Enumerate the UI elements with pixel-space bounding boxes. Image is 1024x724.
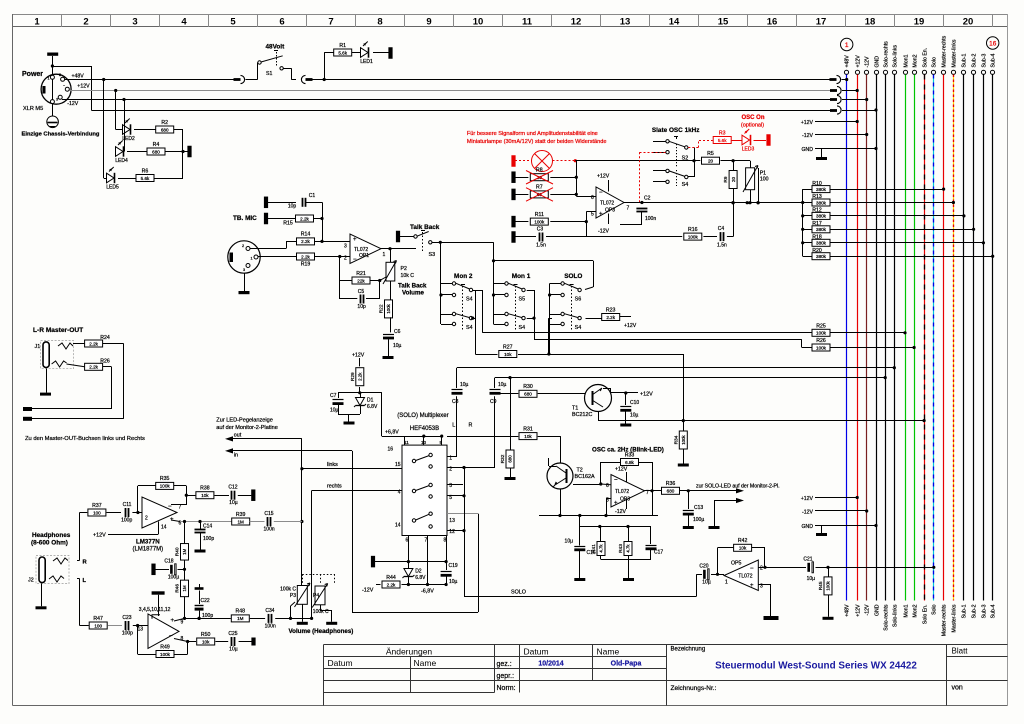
- svg-text:C19: C19: [449, 563, 458, 569]
- wire R49 feedback: [137, 626, 139, 655]
- svg-text:R1: R1: [339, 43, 346, 49]
- resistor R18: [812, 239, 830, 246]
- wire R31 to T2: [538, 436, 561, 438]
- svg-text:100k: 100k: [534, 219, 545, 224]
- ground C14: [195, 550, 206, 553]
- wire +6.8V rail: [382, 436, 442, 438]
- svg-text:R25: R25: [816, 323, 826, 329]
- svg-text:+: +: [353, 237, 357, 243]
- svg-text:4: 4: [181, 17, 187, 28]
- svg-text:R16: R16: [688, 227, 698, 233]
- wire C22: [199, 591, 201, 605]
- svg-text:+: +: [171, 618, 175, 624]
- wire S2 to R3 red dashed: [688, 147, 699, 149]
- svg-text:R47: R47: [93, 616, 103, 622]
- svg-text:10µ: 10µ: [393, 343, 402, 349]
- net GND rail: [91, 110, 833, 112]
- svg-text:Miniaturlampe (30mA/12V) statt: Miniaturlampe (30mA/12V) statt der beide…: [467, 139, 607, 145]
- wire P4 ground: [320, 605, 322, 610]
- capacitor C22: [195, 587, 204, 590]
- svg-text:+6,8V: +6,8V: [385, 430, 399, 436]
- svg-text:R37: R37: [92, 503, 102, 509]
- svg-text:10k C: 10k C: [401, 273, 415, 279]
- connector J-power XLR M5: [41, 74, 71, 104]
- terminal LED1 end: [388, 47, 392, 59]
- svg-text:+12V: +12V: [93, 533, 106, 539]
- svg-text:Sub-4: Sub-4: [991, 604, 997, 618]
- svg-text:Sub-3: Sub-3: [982, 604, 988, 618]
- resistor R40: [181, 544, 189, 561]
- resistor R31: [519, 433, 537, 440]
- svg-text:C7: C7: [330, 393, 337, 399]
- wire R33 to out: [638, 462, 652, 464]
- svg-text:380k: 380k: [816, 254, 827, 259]
- svg-text:Sub-3: Sub-3: [982, 54, 988, 68]
- wire in loop: [352, 451, 354, 612]
- wire mux pin3: [447, 484, 463, 486]
- svg-text:2: 2: [242, 244, 244, 248]
- wire C4 up to OSC line: [727, 236, 733, 238]
- svg-text:Master-links: Master-links: [952, 39, 958, 67]
- svg-text:100p: 100p: [203, 536, 214, 542]
- ground C13: [683, 526, 694, 529]
- dotted gang link: [302, 574, 304, 583]
- svg-text:−: −: [599, 190, 603, 196]
- svg-text:7: 7: [627, 206, 630, 212]
- wire amp2 gnd: [158, 595, 160, 616]
- svg-text:6.8V: 6.8V: [415, 575, 426, 581]
- red cross R8: [526, 171, 553, 185]
- wire lamp node down to OP2 -in: [576, 161, 578, 196]
- svg-text:D1: D1: [367, 398, 374, 404]
- wire OP2 +12V: [608, 180, 610, 192]
- svg-text:R23: R23: [606, 307, 616, 313]
- svg-text:LED1: LED1: [360, 59, 373, 65]
- svg-text:+48V: +48V: [845, 55, 851, 68]
- net Sub-4 bus line: [990, 70, 994, 74]
- wire LED4 to R4: [127, 151, 147, 153]
- svg-text:C4: C4: [718, 226, 725, 232]
- svg-text:R10: R10: [812, 181, 822, 187]
- svg-text:R17: R17: [812, 221, 822, 227]
- svg-text:2.2k: 2.2k: [300, 216, 309, 221]
- svg-text:−: −: [169, 634, 173, 640]
- svg-text:+: +: [599, 212, 603, 218]
- wire R14 to OP1 +in: [315, 241, 351, 243]
- capacitor C9: [490, 389, 501, 391]
- svg-text:380k: 380k: [816, 227, 827, 232]
- svg-text:2.2k: 2.2k: [358, 372, 363, 381]
- resistor R41: [597, 542, 605, 556]
- svg-text:100: 100: [94, 623, 102, 628]
- svg-text:J1: J1: [35, 344, 41, 350]
- wire R13 row: [803, 202, 813, 204]
- svg-text:+12V: +12V: [624, 323, 637, 329]
- terminal master out L: [23, 417, 32, 421]
- wire OP2 out: [624, 202, 803, 204]
- svg-text:R32: R32: [500, 454, 506, 463]
- svg-text:1M: 1M: [238, 519, 245, 524]
- svg-text:C34: C34: [265, 608, 274, 614]
- svg-text:Zur LED-Pegelanzeige: Zur LED-Pegelanzeige: [216, 418, 273, 424]
- svg-text:3,4,5,10,11,12: 3,4,5,10,11,12: [139, 607, 171, 613]
- svg-text:L: L: [452, 423, 455, 429]
- wire +12V to LED2: [114, 89, 117, 92]
- wire R27 line: [475, 354, 497, 356]
- svg-text:1: 1: [34, 17, 40, 28]
- ground TB XLR: [244, 273, 246, 291]
- resistor R32: [506, 450, 514, 468]
- wire SOLO to C20: [696, 574, 698, 596]
- net +48V rail: [65, 79, 234, 81]
- svg-text:R36: R36: [666, 481, 676, 487]
- svg-text:10/2014: 10/2014: [538, 661, 563, 668]
- wire to SOLO top: [494, 260, 594, 262]
- svg-text:R6: R6: [142, 168, 149, 174]
- wire R40 top: [184, 522, 186, 544]
- svg-text:16: 16: [989, 41, 997, 48]
- svg-text:HEF4053B: HEF4053B: [410, 426, 439, 432]
- svg-text:C25: C25: [228, 631, 237, 637]
- capacitor C8: [452, 389, 463, 391]
- wire OP3 out: [645, 490, 662, 492]
- svg-text:C14: C14: [203, 524, 212, 530]
- arrow 2: [736, 498, 744, 503]
- wire pin3 ground: [758, 584, 771, 586]
- wire R50 to C25: [215, 641, 228, 643]
- svg-text:SOLO: SOLO: [564, 273, 582, 280]
- svg-text:R49: R49: [160, 644, 170, 650]
- svg-text:2: 2: [145, 516, 148, 522]
- wire Mon1 feed: [493, 242, 495, 260]
- svg-text:T2: T2: [577, 468, 583, 474]
- svg-text:C20: C20: [699, 564, 708, 570]
- op-amp U2 LM377 upper: [142, 497, 177, 528]
- arrow out: [225, 436, 233, 441]
- zener D2: [404, 569, 413, 577]
- svg-text:Datum: Datum: [328, 658, 353, 668]
- LED LED5: [107, 173, 115, 183]
- wire mux pin5: [447, 495, 464, 497]
- net +48V bus line: [844, 70, 848, 74]
- wire P1 bottom: [750, 190, 752, 203]
- svg-text:5: 5: [591, 212, 594, 218]
- wire R9 bottom: [733, 188, 735, 203]
- wire R input: [80, 512, 88, 514]
- svg-text:8: 8: [377, 17, 382, 28]
- resistor R48: [231, 615, 249, 622]
- wire R22 to C6: [390, 317, 392, 332]
- svg-text:22k: 22k: [357, 278, 365, 283]
- svg-text:Mon 2: Mon 2: [454, 273, 473, 280]
- ground J1: [46, 369, 48, 393]
- svg-text:+: +: [614, 501, 618, 507]
- resistor R13: [812, 199, 830, 206]
- svg-text:+48V: +48V: [72, 74, 85, 80]
- capacitor C16: [574, 546, 585, 548]
- ground J2 bar: [36, 606, 47, 609]
- resistor R10: [812, 186, 830, 193]
- svg-text:100n: 100n: [264, 527, 275, 533]
- lamp LP1: [532, 151, 553, 172]
- svg-text:2.2k: 2.2k: [606, 315, 615, 320]
- ground R32: [505, 477, 516, 480]
- svg-text:Zeichnungs-Nr.:: Zeichnungs-Nr.:: [671, 685, 717, 692]
- ground GND stub bottom: [816, 533, 827, 536]
- capacitor C5: [360, 295, 362, 304]
- svg-text:R4: R4: [153, 142, 160, 148]
- svg-text:10µ: 10µ: [498, 382, 507, 388]
- svg-text:C6: C6: [394, 329, 401, 335]
- red cross R7: [526, 188, 553, 202]
- svg-text:Power: Power: [22, 71, 43, 78]
- arrow to SOLO LED: [736, 488, 744, 493]
- wire R36 to arrow: [680, 490, 738, 492]
- svg-text:680: 680: [161, 127, 169, 132]
- svg-text:10: 10: [473, 17, 484, 28]
- wire C18 to node: [178, 569, 185, 571]
- wire SOLO row3 to R23: [586, 318, 603, 320]
- svg-text:13: 13: [137, 627, 143, 633]
- svg-text:R20: R20: [812, 248, 822, 254]
- potentiometer P2: [386, 262, 395, 281]
- wire R20 row: [803, 256, 813, 258]
- capacitor C2: [636, 208, 647, 210]
- wire LED1 to terminal: [373, 52, 389, 54]
- svg-text:C9: C9: [490, 399, 497, 405]
- wire pin2 line: [758, 567, 806, 569]
- svg-text:Norm:: Norm:: [497, 685, 516, 692]
- wire R7 to node: [550, 194, 576, 196]
- svg-text:2: 2: [760, 566, 763, 572]
- svg-text:6: 6: [279, 17, 284, 28]
- svg-text:R21: R21: [356, 271, 366, 277]
- wire C15 right: [274, 521, 302, 523]
- svg-text:Sub-4: Sub-4: [991, 54, 997, 68]
- svg-text:C15: C15: [264, 511, 273, 517]
- svg-text:-12V: -12V: [802, 510, 813, 516]
- wire OP2 -12V: [608, 214, 610, 225]
- svg-text:LED4: LED4: [115, 158, 128, 164]
- svg-text:C11: C11: [123, 502, 132, 508]
- svg-text:−: −: [353, 257, 357, 263]
- svg-text:C3: C3: [537, 227, 544, 233]
- resistor R36: [662, 487, 680, 494]
- svg-text:rechts: rechts: [327, 484, 342, 490]
- wire R45 top: [828, 567, 830, 577]
- wire S3 to banks: [432, 242, 440, 244]
- svg-text:10µ: 10µ: [229, 500, 238, 506]
- resistor R14: [297, 238, 315, 245]
- svg-text:100k: 100k: [386, 303, 391, 313]
- wire OP1 output: [381, 248, 416, 250]
- wire R27 to R34 column: [683, 354, 685, 432]
- net Master-links bus line: [951, 70, 955, 74]
- svg-text:Einzige Chassis-Verbindung: Einzige Chassis-Verbindung: [22, 132, 100, 138]
- svg-text:+12V: +12V: [801, 496, 814, 502]
- svg-text:C8: C8: [452, 399, 459, 405]
- ground OP5: [764, 616, 779, 620]
- svg-text:10k: 10k: [201, 493, 209, 498]
- terminal LED3: [766, 134, 770, 146]
- capacitor C3: [539, 233, 541, 242]
- wire mux pin7: [427, 536, 429, 585]
- svg-text:S4: S4: [466, 325, 473, 331]
- svg-text:Bezeichnung: Bezeichnung: [671, 647, 706, 653]
- svg-text:C5: C5: [358, 289, 365, 295]
- svg-text:14: 14: [161, 525, 167, 531]
- ground GND stub top: [816, 157, 827, 160]
- svg-text:Solo-rechts: Solo-rechts: [884, 41, 890, 68]
- net Solo En. bus line: [922, 70, 926, 74]
- svg-text:OP3: OP3: [605, 208, 615, 214]
- terminal lamp: [511, 155, 515, 167]
- wire +48V to R1: [323, 78, 326, 81]
- svg-text:13: 13: [620, 17, 631, 28]
- svg-text:100k: 100k: [816, 331, 827, 336]
- wire R47 to C23: [108, 625, 122, 627]
- svg-text:(LM1877M): (LM1877M): [133, 547, 164, 553]
- svg-text:100p: 100p: [121, 518, 132, 524]
- svg-text:LM377N: LM377N: [136, 539, 160, 546]
- net Solo-rechts bus line: [883, 70, 887, 74]
- svg-text:Master-rechts: Master-rechts: [942, 604, 948, 636]
- svg-text:1M: 1M: [237, 616, 244, 621]
- wire pin1 to R19: [258, 256, 297, 258]
- wire C11 to amp: [132, 512, 142, 514]
- svg-text:OP1: OP1: [359, 253, 369, 259]
- wire C25 to term: [239, 641, 252, 643]
- svg-text:in: in: [234, 452, 238, 458]
- svg-text:−: −: [750, 566, 754, 572]
- op-amp OP3: [611, 475, 645, 508]
- svg-text:(SOLO) Multiplexer: (SOLO) Multiplexer: [397, 413, 448, 419]
- svg-text:Mon1: Mon1: [904, 54, 910, 67]
- svg-text:gepr.:: gepr.:: [497, 673, 515, 680]
- wire R1 to LED1: [352, 52, 362, 54]
- svg-text:R45: R45: [818, 581, 824, 590]
- svg-text:680: 680: [508, 455, 513, 463]
- svg-text:GND: GND: [875, 56, 881, 68]
- resistor R7: [530, 191, 548, 198]
- wire R35 feedback: [137, 486, 139, 513]
- svg-text:10µ: 10µ: [630, 413, 639, 419]
- wire R26 to Mon2 bus: [830, 347, 914, 349]
- terminal LED chain: [187, 146, 191, 158]
- svg-text:R41: R41: [591, 544, 597, 553]
- wire R26b loop: [103, 366, 112, 368]
- svg-text:9: 9: [426, 17, 431, 28]
- svg-text:R24: R24: [100, 335, 110, 341]
- wire C21 to bus: [816, 567, 934, 569]
- wire R17 row: [803, 229, 813, 231]
- wire R10 row: [803, 189, 813, 191]
- resistor R26b: [85, 363, 103, 370]
- wire T1 emitter +12V: [611, 392, 626, 394]
- net +12V rail: [69, 90, 833, 92]
- svg-text:10k: 10k: [202, 639, 210, 644]
- wire R15 to node: [314, 218, 323, 220]
- net Master-rechts bus line: [941, 70, 945, 74]
- svg-text:5.6k: 5.6k: [718, 138, 727, 143]
- svg-text:10µ: 10µ: [229, 647, 238, 653]
- wire pin2 to R14: [250, 248, 286, 250]
- wire T2 emitter: [553, 485, 555, 487]
- wire line to Solo-links bus: [457, 367, 894, 369]
- svg-text:Talk Back: Talk Back: [398, 283, 427, 290]
- wire C20 to OP5: [711, 574, 724, 576]
- svg-text:5.6k: 5.6k: [141, 176, 150, 181]
- svg-text:15: 15: [395, 462, 401, 468]
- svg-text:S4: S4: [519, 325, 526, 331]
- svg-text:GND: GND: [875, 604, 881, 616]
- wire feedback to P2 wiper: [380, 277, 386, 281]
- capacitor C13: [683, 510, 694, 512]
- wire R11 to OP2: [550, 221, 586, 223]
- potentiometer P3: [297, 586, 307, 605]
- wire C6 to ground: [388, 339, 390, 356]
- sheet reference 1: [841, 38, 853, 50]
- LED LED3: [742, 135, 750, 145]
- svg-text:OSC On: OSC On: [741, 115, 764, 121]
- ground arrow2: [709, 526, 720, 529]
- svg-text:Solo: Solo: [932, 604, 938, 614]
- wire OP3 -12V: [626, 499, 628, 509]
- wire XLR to chassis ground: [52, 104, 54, 117]
- wire R23 to +12V: [620, 316, 631, 318]
- svg-text:Mon1: Mon1: [904, 604, 910, 617]
- terminal C12: [251, 489, 255, 501]
- wire feedback down: [339, 257, 341, 281]
- capacitor C10: [620, 406, 631, 408]
- resistor R34: [679, 431, 687, 449]
- ground R34: [678, 464, 689, 467]
- ground P3: [297, 622, 308, 625]
- svg-text:Solo-links: Solo-links: [893, 45, 899, 68]
- wire R48 to C34: [250, 618, 265, 620]
- svg-text:R5: R5: [707, 151, 714, 157]
- svg-text:C21: C21: [803, 557, 812, 563]
- svg-text:48Volt: 48Volt: [266, 44, 286, 51]
- svg-text:gez.:: gez.:: [497, 661, 512, 668]
- svg-text:1M: 1M: [182, 548, 187, 554]
- terminal C3: [511, 231, 515, 243]
- wire R21 wiring: [340, 280, 352, 282]
- svg-text:14: 14: [669, 17, 680, 28]
- wire C10: [625, 393, 627, 405]
- svg-text:R33: R33: [625, 452, 635, 458]
- resistor R43: [624, 542, 632, 556]
- resistor R2: [156, 126, 174, 133]
- net Mon1 bus line: [903, 70, 907, 74]
- net Sub-3 bus line: [981, 70, 985, 74]
- svg-text:2.2k: 2.2k: [301, 239, 310, 244]
- net Sub-2 bus line: [971, 70, 975, 74]
- svg-text:16: 16: [387, 447, 393, 453]
- wire chassis bar to GND rail: [51, 64, 54, 67]
- svg-text:−: −: [614, 478, 618, 484]
- svg-text:380k: 380k: [816, 187, 827, 192]
- wire -12V to LED4: [122, 98, 125, 101]
- svg-text:20: 20: [963, 17, 974, 28]
- wire C2 bottom: [641, 212, 643, 225]
- wire R33 feedback: [600, 462, 602, 484]
- resistor R15: [296, 215, 314, 222]
- ground amp2 top: [152, 591, 165, 594]
- svg-text:Solo En.: Solo En.: [923, 48, 929, 68]
- resistor R38: [196, 492, 214, 499]
- wire terminal to C1: [268, 202, 297, 204]
